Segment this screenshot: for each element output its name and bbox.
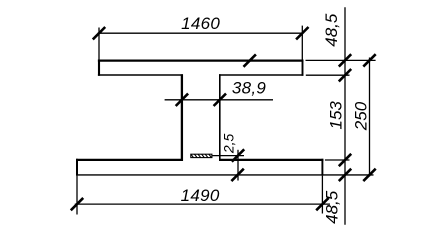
extension line 1460 right — [301, 26, 303, 60]
extension line 1460 left — [98, 28, 100, 60]
tick 38,9 right — [214, 94, 226, 106]
top flange bottom edge left segment — [98, 74, 183, 76]
dimension line 1490 — [75, 203, 330, 205]
svg-text:1460: 1460 — [181, 14, 220, 33]
dimension line 38,9 — [165, 99, 273, 101]
tick 1490 left — [71, 198, 83, 210]
bottom flange left edge — [76, 159, 78, 176]
hatch top extension line — [213, 155, 245, 157]
extension line 1490 left — [76, 176, 78, 215]
vertical dimension line A — [344, 7, 346, 224]
tick A bottom flange bottom — [339, 169, 351, 181]
dimension line 2,5 vertical — [237, 150, 239, 181]
top flange top edge — [98, 59, 304, 61]
svg-text:48,5: 48,5 — [322, 13, 341, 47]
svg-text:250: 250 — [351, 101, 370, 131]
top flange right edge — [302, 60, 304, 76]
tick 38,9 left — [176, 94, 188, 106]
tick 2,5 bottom — [231, 169, 243, 181]
dimension line 1460 — [98, 32, 304, 34]
bottom flange right edge — [321, 159, 323, 176]
bottom flange top edge left segment — [76, 159, 183, 161]
stray tick on flange top edge — [244, 54, 256, 66]
vertical dimension line B — [369, 58, 371, 177]
right extension line from bottom flange top edge — [325, 159, 350, 161]
top flange bottom edge right segment — [219, 74, 303, 76]
svg-text:2,5: 2,5 — [220, 133, 236, 154]
right extension line from flange top edge — [306, 59, 376, 61]
tick 2,5 top — [232, 149, 244, 161]
tick 1460 left — [93, 27, 105, 39]
bottom flange top edge right segment — [219, 159, 323, 161]
tick B bottom — [363, 169, 375, 181]
tick A bottom flange top — [339, 154, 351, 166]
tick A top flange bottom — [339, 69, 351, 81]
tick B top — [363, 54, 375, 66]
top flange left edge — [98, 60, 100, 76]
svg-text:153: 153 — [327, 101, 346, 130]
web left edge — [181, 74, 183, 161]
svg-text:1490: 1490 — [181, 186, 220, 205]
svg-text:48,5: 48,5 — [323, 190, 342, 224]
svg-text:38,9: 38,9 — [232, 79, 267, 98]
weld hatch box at web bottom — [190, 153, 214, 160]
right extension line from flange bottom edge — [306, 74, 350, 76]
tick A top flange top — [339, 54, 351, 66]
tick 1460 right — [296, 27, 308, 39]
tick 1490 right — [316, 198, 328, 210]
extension line 1490 right — [321, 176, 323, 214]
web right edge — [219, 74, 221, 161]
bottom flange bottom edge extending right as extension line — [76, 174, 374, 176]
